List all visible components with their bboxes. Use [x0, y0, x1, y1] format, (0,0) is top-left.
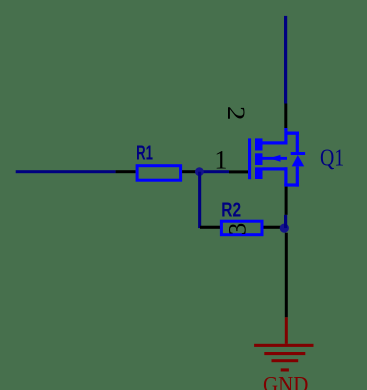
svg-text:Q1: Q1 [320, 145, 344, 172]
svg-text:R2: R2 [221, 198, 241, 221]
svg-text:2: 2 [222, 106, 249, 120]
svg-text:GND: GND [263, 373, 308, 390]
svg-text:3: 3 [225, 223, 252, 236]
svg-text:R1: R1 [136, 142, 153, 165]
svg-text:1: 1 [214, 146, 227, 175]
